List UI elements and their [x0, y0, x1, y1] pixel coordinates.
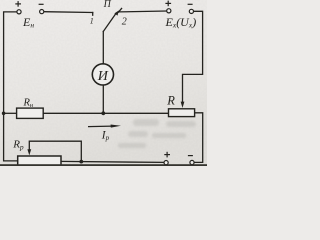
svg-text:1: 1 — [90, 16, 94, 25]
switch blade arm (П) — [103, 14, 116, 32]
polarity minus mark at battery — [188, 155, 193, 157]
wire: mid-line left vertical to R_n — [4, 112, 17, 114]
rheostat R_p body — [18, 156, 61, 165]
potentiometer R body — [169, 109, 195, 117]
switch contact 1 tick — [92, 13, 94, 16]
battery plus terminal circle — [164, 161, 168, 165]
junction dot left mid-line — [2, 112, 6, 116]
current arrow I_p — [88, 125, 121, 128]
junction dot bottom run / wiper loop — [79, 160, 83, 164]
terminal E_n minus circle — [40, 10, 44, 14]
terminal E_x minus circle — [189, 9, 193, 13]
wire: R_p wiper loop up and over to bottom-run junction — [29, 141, 81, 161]
svg-text:И: И — [97, 69, 109, 84]
junction dot galvanometer mid-line — [101, 111, 105, 115]
svg-text:Ex(Ux): Ex(Ux) — [165, 15, 197, 30]
R wiper arrowhead — [181, 102, 185, 108]
polarity minus mark at E_n — [39, 3, 44, 5]
switch contact 2 tick — [118, 8, 121, 12]
photo bottom edge line — [0, 164, 207, 166]
wire: bottom run from R_p to battery plus terminal — [61, 161, 164, 162]
wire: blade pivot down to galvanometer top — [102, 32, 104, 64]
polarity minus mark at E_x — [188, 3, 193, 5]
switch blade arrowhead at contact 2 — [114, 10, 119, 15]
wire: switch contact 2 to E_x plus terminal — [119, 10, 167, 13]
terminal E_x plus circle — [167, 9, 171, 13]
polarity plus mark at E_n — [15, 1, 21, 7]
svg-text:2: 2 — [122, 16, 127, 27]
wire: mid-line R_n to R — [43, 112, 168, 114]
polarity plus mark at E_x — [165, 1, 171, 7]
R_p wiper arrowhead — [27, 149, 31, 155]
ghost smudge bleed-through lower right — [118, 119, 196, 148]
svg-text:П: П — [103, 0, 112, 10]
svg-text:R: R — [166, 93, 175, 107]
wire: E_x minus terminal right, down right side, jog left to R wiper — [183, 11, 203, 102]
resistor R_n body — [17, 108, 44, 118]
wire: galvanometer bottom to mid-line junction — [102, 85, 104, 113]
battery minus terminal circle — [190, 160, 194, 164]
terminal E_n plus circle — [17, 10, 21, 14]
wire: left vertical from E_n plus terminal down to bottom-left corner — [4, 12, 18, 161]
galvanometer И circle — [92, 64, 113, 85]
polarity plus mark at battery — [164, 152, 170, 158]
wire: E_n minus terminal to switch contact 1 — [44, 11, 93, 14]
wire: R right side down to battery minus terminal — [194, 113, 202, 163]
